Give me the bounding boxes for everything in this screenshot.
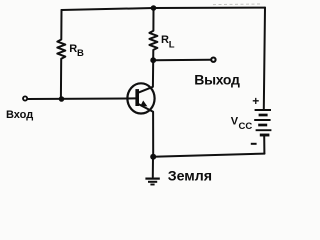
svg-text:+: + [252, 94, 259, 108]
svg-text:Вход: Вход [6, 109, 33, 121]
svg-text:R: R [161, 34, 169, 46]
svg-text:Выход: Выход [194, 72, 240, 88]
svg-text:L: L [169, 40, 175, 51]
svg-text:CC: CC [239, 121, 253, 132]
svg-text:Земля: Земля [168, 169, 212, 185]
svg-text:R: R [69, 43, 77, 55]
svg-text:B: B [77, 48, 84, 59]
